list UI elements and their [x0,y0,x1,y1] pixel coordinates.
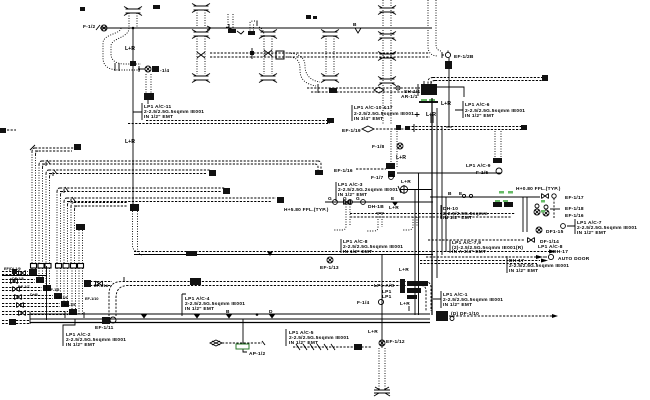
svg-text:L+R: L+R [401,179,411,185]
junction tick B2 [353,22,361,33]
wire dashed under label [128,118,334,124]
svg-text:LP1: LP1 [382,294,392,300]
wire exit row 4 [2,293,62,300]
svg-text:EF(D)-1/9: EF(D)-1/9 [4,267,21,271]
label L+R second [415,112,437,118]
pipe bend ticks [115,63,119,71]
wire dashed right main [408,125,527,130]
svg-text:EF-1/11: EF-1/11 [95,325,114,331]
wire bundle lines [415,108,446,315]
label block LP1 A/C-10 [352,105,414,122]
svg-text:F-1/7: F-1/7 [371,175,384,181]
equipment blocks row1 [493,200,513,207]
svg-text:L+R: L+R [368,329,378,335]
svg-text:LP1 A/C-10 &17: LP1 A/C-10 &17 [354,105,393,111]
pipe low-left elbow run [109,277,431,316]
wire hatched dashed [293,344,372,350]
pipe return bend top-left [103,28,141,70]
valve EF-1/16 row [334,168,386,174]
label block LP1 A/C-79 [450,240,523,255]
svg-text:D: D [269,309,273,315]
pipe low dashed run [307,84,420,93]
svg-text:F-1/5: F-1/5 [476,170,489,176]
svg-text:DH-17: DH-17 [553,249,568,255]
svg-text:L+R: L+R [396,155,406,161]
staircase elbow 4 [57,187,230,263]
svg-text:IN 1/2" EMT: IN 1/2" EMT [443,302,472,308]
wire right verticals [523,197,527,232]
pipe riser x390 full [378,0,396,125]
pipe riser x432 with elbow [428,0,474,127]
svg-text:LP1 A/C-9: LP1 A/C-9 [466,163,491,169]
staircase elbow 6 [71,203,139,264]
junction box on low run [190,278,201,285]
svg-text:-1/4: -1/4 [160,68,169,74]
pipe tail drop [374,348,390,396]
svg-text:E: E [391,196,395,202]
pipe P1 riser top flange [124,7,142,29]
pipe hook 1 [334,204,352,230]
wire vertical main bundle [431,98,433,315]
pipe riser to mid run [133,211,144,255]
svg-text:DH-1B: DH-1B [368,204,384,210]
svg-text:EF-1/16: EF-1/16 [334,168,353,174]
svg-text:EF-1/5: EF-1/5 [64,303,75,307]
wire tail riser [368,255,405,348]
staircase elbow 1 [30,144,81,263]
valve F-1/4 [357,299,410,311]
junction DF-1/10 [436,311,558,321]
svg-text:EF-1/2B: EF-1/2B [454,54,474,60]
pipe upper-right dashed run [428,75,548,84]
svg-text:L+R: L+R [399,267,409,273]
staircase elbow 5 [64,197,284,263]
svg-text:EF-1/16: EF-1/16 [565,213,584,219]
valve cluster on top line [207,14,264,36]
wire right row1 [430,191,584,201]
labels left cluster [4,267,109,307]
svg-text:B: B [353,22,357,28]
node mark [153,5,160,9]
valve 1/4 assembly [138,66,169,74]
svg-text:L+R: L+R [426,112,436,118]
valve DF-1/14 [428,238,559,246]
node tick on riser [130,61,136,66]
svg-text:LP1 A/C-6: LP1 A/C-6 [465,102,490,108]
svg-text:L+R: L+R [389,205,399,211]
wire long mid dashed [134,250,556,257]
wire exit row 3 [2,285,51,292]
pipe riser x268 [259,30,277,83]
pipe S-bend [286,53,320,86]
valve EF-1/13 [320,257,339,271]
svg-text:EF-1/19: EF-1/19 [342,128,361,134]
outlet AP-1/2 [236,319,266,357]
pipe hook 2 [367,213,384,231]
label block LP1 A/C-4 [182,294,245,316]
svg-text:IN 1/2" EMT: IN 1/2" EMT [577,230,606,236]
wire auto door [426,254,590,262]
svg-text:B: B [226,309,230,315]
svg-text:IN 1/2" EMT: IN 1/2" EMT [185,306,214,312]
svg-text:AUTO DOOR: AUTO DOOR [558,256,590,262]
coil on riser [430,116,434,122]
node mark top-left [80,7,85,11]
pipe stub left [84,280,112,287]
svg-text:G: G [328,196,332,202]
wire right row3 [350,214,515,231]
wire exit row 1 [2,269,37,276]
pipe drop F-1/5 [466,131,502,176]
wire bottom main double [30,312,430,324]
svg-text:H+5.80 FFL.(TYP.): H+5.80 FFL.(TYP.) [284,207,329,213]
wire exit row 5 [2,301,69,308]
svg-text:IN A 3/4" EMT: IN A 3/4" EMT [452,249,486,255]
label block LP1 A/C-2 [63,319,126,348]
wire G line [325,196,433,206]
label block LP1 A/C-11 [133,103,204,120]
panel LP1-A/C [374,279,428,300]
svg-text:D+R: D+R [30,293,38,297]
svg-text:F-1/2: F-1/2 [83,24,96,30]
ticks on bottom line [65,309,275,319]
svg-text:IN 1/2" EMT: IN 1/2" EMT [338,192,367,198]
node left edge mark [0,128,16,133]
svg-text:IN 1/2" EMT: IN 1/2" EMT [509,268,538,274]
junction tick B1 [226,24,233,31]
node mark pair [306,15,317,19]
svg-text:DF-1/8: DF-1/8 [12,277,24,281]
svg-text:AP-1/2: AP-1/2 [249,351,266,357]
svg-text:(D) DF-1/10: (D) DF-1/10 [451,311,479,317]
wire exit row 6 [2,309,77,316]
fitting box on run [250,48,284,59]
wire mid solid [397,172,501,174]
wire exit row 2 [2,277,44,284]
pipe main horizontal dashed run [210,53,430,57]
svg-text:H+0.80 FFL.(TYP.): H+0.80 FFL.(TYP.) [516,186,561,192]
label block LP1 A/C-7 [561,219,638,236]
svg-text:IN 1/2" EMT: IN 1/2" EMT [66,342,95,348]
svg-text:L+R: L+R [441,101,451,107]
equipment SH-1/1 AR-1/1 [374,81,464,100]
junction boxes row [31,264,84,269]
label block LP1 A/C-1 [433,291,503,308]
pipe capped riser [76,224,85,263]
valve row2 [534,198,584,219]
wire exit row 7 [2,319,30,325]
svg-text:EF-1/8: EF-1/8 [48,288,59,292]
valve DH-15 [536,227,564,235]
pipe riser x201 top [192,4,210,29]
staircase elbow 2 [39,160,323,263]
pipe drop from valve [144,74,154,104]
risers below boxes [32,268,83,314]
pipe riser x330 [321,30,339,83]
staircase elbow 3 [46,170,216,263]
pipe x201 lower segment [192,30,210,83]
pipe drop F-1/8 [372,131,406,177]
svg-text:LP1-A/C: LP1-A/C [374,283,395,289]
wire L+R riser [132,28,134,205]
svg-text:EF-1/10: EF-1/10 [85,297,99,301]
label block LP1 A/C-8 [341,239,403,255]
valve EXH [398,185,432,194]
label DH-1C block [441,205,488,221]
svg-text:AR-1/1: AR-1/1 [401,94,418,100]
label block DH-17 [420,256,569,274]
svg-text:EF-1/18: EF-1/18 [565,206,584,212]
svg-text:DF1-15: DF1-15 [546,229,564,235]
label block LP1 A/C-5 [286,329,349,346]
valve F-1/2 [83,24,107,31]
wire cluster solid lines [2,266,47,320]
svg-text:IN 1/2" EMT: IN 1/2" EMT [465,113,494,119]
svg-text:DF-1/6: DF-1/6 [56,296,68,300]
valve EF-1/19 row [342,124,414,134]
junction box C3 [186,251,197,256]
label F-1/7 [371,175,393,181]
svg-text:F-1/4: F-1/4 [357,300,370,306]
label block LP1 A/C-6 [455,101,525,119]
svg-text:L+R: L+R [125,139,135,145]
svg-text:B: B [448,191,452,197]
svg-text:IN 1/2" EMT: IN 1/2" EMT [144,114,173,120]
svg-text:IN 3/4" EMT: IN 3/4" EMT [354,116,383,122]
equipment bar below [419,99,438,103]
svg-text:EF-1/12: EF-1/12 [386,339,405,345]
svg-text:IN 1/2" EMT: IN 1/2" EMT [343,249,372,255]
valve diamond [210,340,265,346]
pipe return bend inner [111,28,141,64]
svg-text:L+R: L+R [125,46,135,52]
label block LP1 A/C-3 [336,182,398,201]
svg-text:EF-1/13: EF-1/13 [320,265,339,271]
svg-text:F-1/8: F-1/8 [372,144,385,150]
svg-text:EF-1/17: EF-1/17 [565,195,584,201]
svg-text:DF-1/7: DF-1/7 [18,285,30,289]
wire top main line [100,27,432,29]
valve EF-1/11 [95,317,116,331]
svg-text:IN 1/2" EMT: IN 1/2" EMT [443,215,472,221]
